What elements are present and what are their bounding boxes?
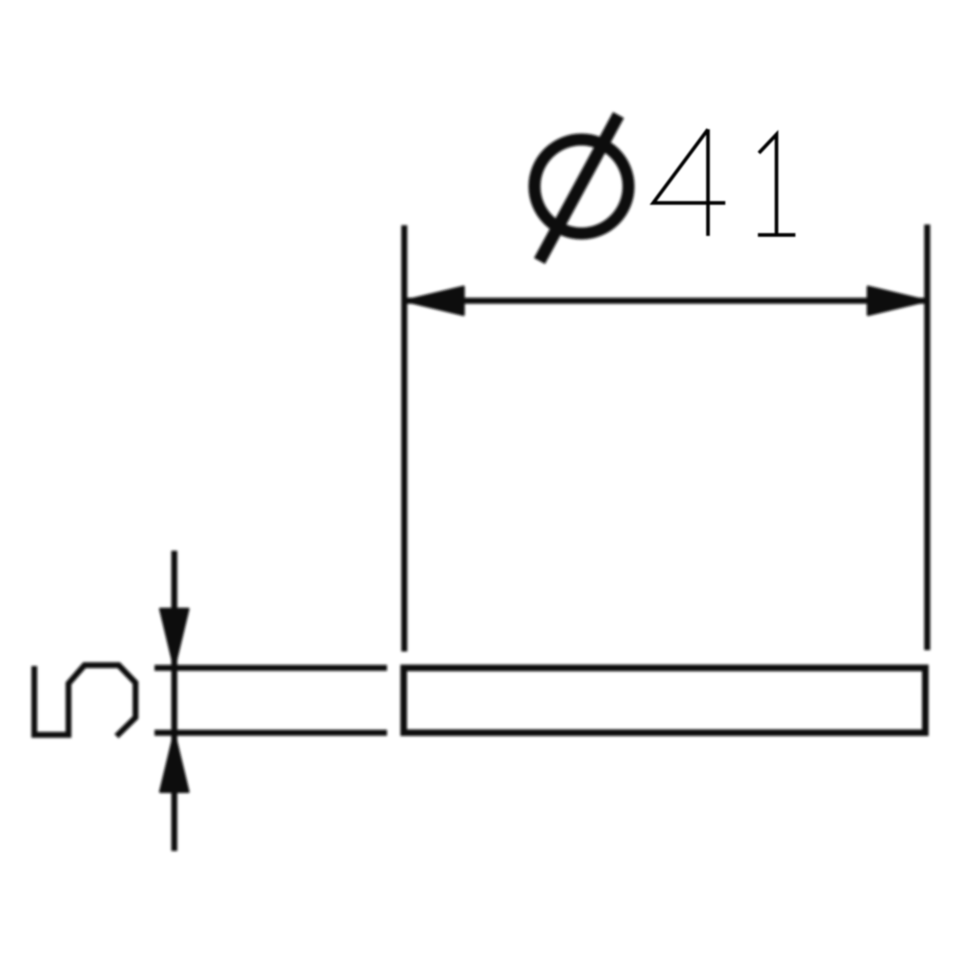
diameter symbol slash [540, 115, 619, 261]
extension line top (thickness dim) [155, 665, 388, 671]
part outline: disc side view rectangle [404, 668, 926, 733]
extension line left (diameter dim) [401, 225, 407, 651]
diameter symbol circle [535, 140, 629, 234]
digit 4 [653, 129, 725, 236]
dimension line horizontal Ø41 [404, 298, 927, 304]
digit 1 [758, 134, 796, 235]
arrowhead right [868, 287, 927, 315]
arrowhead up [160, 734, 188, 792]
extension line right (diameter dim) [924, 225, 930, 651]
extension line bottom (thickness dim) [155, 730, 388, 736]
arrowhead left [405, 287, 464, 315]
arrowhead down [160, 609, 188, 667]
digit 5 (rotated 90deg CCW) [34, 665, 135, 736]
dimension line vertical 5 [171, 551, 177, 851]
